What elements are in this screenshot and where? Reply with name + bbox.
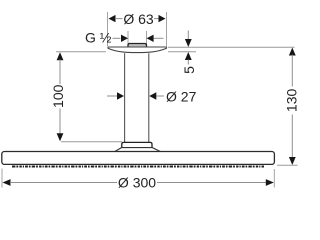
extension line Ø300 left xyxy=(1,169,3,188)
collar nut at pipe base xyxy=(122,142,152,147)
connector stub G1/2 xyxy=(128,44,147,48)
extension line Ø300 right xyxy=(273,169,275,188)
svg-text:130: 130 xyxy=(284,89,300,113)
extension line left of Ø63 xyxy=(107,12,109,46)
extension line hub top xyxy=(61,141,122,143)
pipe right edge xyxy=(148,53,150,142)
ceiling line right top xyxy=(168,46,295,48)
spray nozzle row xyxy=(12,166,264,168)
dimension Ø63 xyxy=(109,11,166,27)
ceiling line right bottom xyxy=(168,51,196,53)
dimension 5 vertical xyxy=(181,31,197,74)
extension line head bottom right xyxy=(277,164,298,166)
svg-text:Ø 63: Ø 63 xyxy=(123,11,154,27)
svg-text:Ø 27: Ø 27 xyxy=(166,89,197,105)
extension line right of G1/2 xyxy=(146,31,148,44)
dimension Ø27 xyxy=(107,89,197,105)
svg-text:G ½: G ½ xyxy=(85,30,112,46)
dimension 130 vertical xyxy=(284,48,300,166)
ceiling flange xyxy=(108,47,167,53)
svg-text:Ø 300: Ø 300 xyxy=(118,175,156,191)
dimension G 1/2 xyxy=(85,30,163,46)
svg-text:100: 100 xyxy=(50,84,66,108)
pipe left edge xyxy=(124,53,126,142)
shower head disc xyxy=(2,152,275,165)
extension line left of G1/2 xyxy=(127,31,129,44)
svg-text:5: 5 xyxy=(181,66,197,74)
dimension 100 vertical xyxy=(50,52,66,141)
extension line right of Ø63 xyxy=(166,12,168,46)
ceiling line left xyxy=(56,51,106,53)
hub cone xyxy=(114,148,161,152)
dimension Ø300 xyxy=(3,175,274,191)
